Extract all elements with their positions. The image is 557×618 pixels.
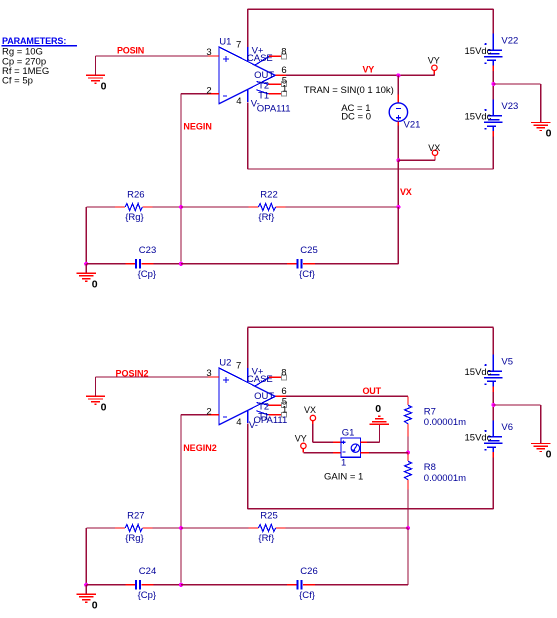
wire left vertical R27 to C24	[85, 528, 87, 585]
VCCS G1	[341, 438, 361, 457]
svg-text:OUT: OUT	[254, 391, 274, 402]
svg-text:3: 3	[206, 368, 211, 379]
svg-text:R27: R27	[127, 510, 144, 521]
op-amp U1 (OPA111)	[206, 37, 290, 115]
off-page connector VX	[432, 150, 437, 155]
wire NEGIN to C25	[181, 263, 287, 265]
svg-text:R7: R7	[424, 406, 436, 417]
resistor R25	[248, 527, 258, 529]
svg-text:R26: R26	[127, 189, 144, 200]
parameters underline	[2, 45, 78, 47]
wire ground stem (C23 row)	[85, 264, 87, 274]
svg-text:3: 3	[206, 47, 211, 58]
svg-text:R8: R8	[424, 462, 436, 473]
svg-text:VY: VY	[295, 434, 307, 444]
svg-text:8: 8	[281, 47, 286, 58]
off-page connector VX (G1)	[310, 415, 315, 420]
wire NEGIN to pin 2	[181, 93, 208, 95]
resistor R22	[248, 206, 258, 208]
svg-text:VX: VX	[428, 143, 440, 153]
wire left vertical R26 to C23	[85, 207, 87, 264]
wire bottom rail (bottom circuit)	[248, 508, 494, 510]
wire ground to C24	[86, 584, 125, 586]
svg-text:C26: C26	[300, 566, 317, 577]
battery V23	[484, 99, 502, 131]
G1 -out stub	[361, 452, 369, 454]
wire V21 to VX	[397, 126, 399, 161]
svg-text:OUT: OUT	[254, 70, 274, 81]
wire to G1 +in	[313, 441, 333, 443]
VX connector stub (G1)	[312, 421, 314, 425]
junction NEGIN2/R27/R25	[179, 526, 183, 530]
wire R27 to NEGIN2	[152, 527, 181, 529]
svg-text:V22: V22	[501, 35, 518, 46]
junction VY/V21	[396, 73, 400, 77]
wire POSIN2 vertical	[95, 377, 97, 396]
wire left to R27	[86, 527, 115, 529]
battery V6	[484, 420, 502, 452]
svg-text:{Cp}: {Cp}	[138, 269, 157, 280]
resistor R26	[115, 206, 125, 208]
wire VX connector drop	[434, 159, 436, 161]
wire OUT corner down to R7	[407, 396, 409, 405]
wire R26 to NEGIN	[152, 206, 181, 208]
wire ground drop (top right)	[540, 84, 542, 123]
svg-text:U2: U2	[219, 358, 231, 369]
svg-text:4: 4	[236, 96, 241, 107]
junction between V5/V6	[491, 403, 495, 407]
wire V- left vertical (bottom circuit)	[247, 424, 249, 509]
junction ground/C24	[84, 583, 88, 587]
junction NEGIN/R26/R22	[179, 205, 183, 209]
svg-text:2: 2	[206, 407, 211, 418]
svg-text:{Rf}: {Rf}	[258, 533, 274, 544]
svg-text:TRAN = SIN(0 1 10k): TRAN = SIN(0 1 10k)	[304, 85, 394, 96]
resistor R7	[405, 405, 412, 424]
wire C25 right	[315, 263, 399, 265]
svg-text:7: 7	[236, 361, 241, 372]
wire VX horizontal	[398, 159, 435, 161]
ground (C24 row)	[77, 594, 96, 602]
wire OUT to VY	[286, 74, 434, 76]
wire C25 row up to VX junction	[397, 207, 399, 264]
junction NEGIN/C23/C25	[179, 262, 183, 266]
capacitor C23	[126, 263, 136, 265]
svg-text:G1: G1	[342, 428, 355, 439]
svg-text:2: 2	[206, 86, 211, 97]
wire NEGIN to R22	[181, 206, 248, 208]
wire OUT	[286, 395, 408, 397]
svg-text:NEGIN: NEGIN	[183, 122, 212, 132]
wire top rail	[248, 8, 494, 10]
svg-text:Cf = 5p: Cf = 5p	[2, 75, 33, 86]
wire left to R26	[86, 206, 115, 208]
svg-text:U1: U1	[219, 37, 231, 48]
svg-text:1: 1	[282, 405, 287, 416]
svg-text:0.00001m: 0.00001m	[424, 473, 466, 484]
wire V22- to V23+	[492, 71, 494, 104]
svg-text:0: 0	[546, 128, 552, 140]
capacitor C24	[126, 584, 136, 586]
wire R25 to R8 junction	[286, 527, 408, 529]
wire bottom rail (top circuit)	[248, 168, 494, 170]
off-page connector VY	[432, 65, 437, 70]
svg-text:VY: VY	[428, 55, 440, 65]
svg-text:V5: V5	[501, 356, 513, 367]
svg-text:0: 0	[92, 278, 98, 290]
wire NEGIN2 vertical	[180, 415, 182, 585]
junction R8/feedback row	[406, 526, 410, 530]
svg-text:VX: VX	[304, 405, 316, 415]
ground (G1, flipped)	[370, 416, 389, 424]
R8 top stub	[407, 453, 409, 462]
svg-text:C24: C24	[139, 566, 156, 577]
svg-text:R25: R25	[260, 510, 277, 521]
wire to ground (bottom right)	[493, 404, 540, 406]
wire VX down to feedback row	[397, 160, 399, 207]
VX connector stub	[434, 156, 436, 159]
wire G1 -out to R7/R8 junction	[369, 452, 408, 454]
svg-text:CASE: CASE	[247, 374, 273, 385]
G1 +out stub	[361, 441, 368, 443]
svg-text:V21: V21	[404, 120, 421, 131]
svg-text:CASE: CASE	[247, 53, 273, 64]
wire V23- down	[492, 137, 494, 169]
svg-text:{Cf}: {Cf}	[299, 269, 315, 280]
svg-text:4: 4	[236, 417, 241, 428]
svg-text:PARAMETERS:: PARAMETERS:	[2, 36, 66, 46]
svg-text:{Rf}: {Rf}	[258, 212, 274, 223]
svg-text:C23: C23	[139, 245, 156, 256]
wire POSIN2 to pin 3	[96, 376, 208, 378]
junction ground/C23	[84, 262, 88, 266]
svg-text:V6: V6	[501, 422, 513, 433]
svg-text:{Cf}: {Cf}	[299, 590, 315, 601]
svg-text:{Rg}: {Rg}	[125, 212, 144, 223]
off-page connector VY (G1)	[301, 443, 306, 448]
wire POSIN to pin 3	[96, 55, 208, 57]
battery V5	[484, 355, 502, 387]
wire junction to V21	[397, 75, 399, 94]
svg-text:OPA111: OPA111	[257, 103, 291, 114]
svg-text:15Vdc: 15Vdc	[465, 433, 492, 444]
wire V+ left vertical (bottom circuit)	[247, 327, 249, 368]
svg-text:15Vdc: 15Vdc	[465, 112, 492, 123]
wire top rail (bottom circuit)	[248, 326, 494, 328]
source V21 (VSIN)	[389, 94, 407, 125]
VY connector stub (G1)	[302, 449, 304, 453]
svg-text:0: 0	[92, 599, 98, 611]
wire V5- to V6+	[492, 392, 494, 425]
svg-text:0.00001m: 0.00001m	[424, 417, 466, 428]
resistor R27	[115, 527, 125, 529]
wire NEGIN2 to pin 2	[181, 414, 208, 416]
junction between V22/V23	[491, 82, 495, 86]
svg-text:R22: R22	[260, 189, 277, 200]
capacitor C25	[287, 263, 297, 265]
junction R7/R8/G1	[406, 451, 410, 455]
svg-text:C25: C25	[300, 245, 317, 256]
wire to ground (top right)	[493, 83, 540, 85]
ground (C23 row)	[77, 273, 96, 281]
svg-text:7: 7	[236, 40, 241, 51]
capacitor C26	[287, 584, 297, 586]
svg-text:POSIN2: POSIN2	[116, 369, 149, 379]
svg-text:V23: V23	[501, 101, 518, 112]
ground (POSIN2)	[86, 396, 105, 404]
svg-text:0: 0	[101, 401, 107, 413]
resistor R8	[405, 461, 412, 480]
wire V+ left vertical (top)	[247, 9, 249, 47]
wire G1 +out	[367, 441, 379, 443]
wire C26 right	[315, 584, 408, 586]
svg-text:POSIN: POSIN	[117, 46, 144, 56]
ground (POSIN)	[86, 75, 105, 83]
wire NEGIN2 to R25	[181, 527, 248, 529]
wire C23 to NEGIN	[153, 263, 181, 265]
R8 bottom stub	[407, 480, 409, 490]
VY connector stub	[433, 71, 435, 74]
svg-text:VY: VY	[363, 64, 375, 74]
svg-text:{Rg}: {Rg}	[125, 533, 144, 544]
svg-text:0: 0	[101, 80, 107, 92]
wire C24 to NEGIN2	[153, 584, 181, 586]
wire R22 to VX	[286, 206, 399, 208]
R7 bottom stub	[407, 424, 409, 437]
wire ground stem (C24 row)	[85, 585, 87, 594]
svg-text:{Cp}: {Cp}	[138, 590, 157, 601]
wire VY connector drop	[433, 74, 435, 76]
junction VX/R22	[396, 205, 400, 209]
wire to V22 top	[492, 9, 494, 34]
svg-text:15Vdc: 15Vdc	[465, 46, 492, 57]
wire VX to G1 +in	[312, 424, 314, 442]
G1 +in stub	[333, 441, 341, 443]
op-amp U2 (OPA111)	[206, 358, 287, 432]
svg-text:OPA111: OPA111	[254, 415, 288, 426]
ground (bottom right)	[531, 444, 550, 452]
svg-text:0: 0	[546, 449, 552, 461]
G1 -in stub	[333, 452, 341, 454]
battery V22	[484, 34, 502, 66]
svg-text:8: 8	[281, 368, 286, 379]
wire ground drop (bottom right)	[540, 405, 542, 444]
wire R8 down across bottom rail	[407, 490, 409, 528]
wire to V5 top	[492, 327, 494, 354]
svg-text:0: 0	[375, 403, 381, 415]
wire VY to G1 -in	[303, 452, 333, 454]
wire POSIN vertical	[95, 56, 97, 75]
wire ground to C23	[86, 263, 125, 265]
wire C26 row up to R8 junction	[407, 528, 409, 585]
junction NEGIN2/C24/C26	[179, 583, 183, 587]
wire G1 +out up to ground	[379, 424, 381, 442]
svg-text:OUT: OUT	[363, 386, 382, 396]
ground (top right)	[531, 123, 550, 131]
wire V6- down	[492, 458, 494, 509]
svg-text:15Vdc: 15Vdc	[465, 367, 492, 378]
wire R7 to junction	[407, 436, 409, 452]
svg-text:DC = 0: DC = 0	[341, 112, 371, 123]
svg-text:GAIN = 1: GAIN = 1	[324, 472, 363, 483]
junction VX	[396, 158, 400, 162]
svg-text:VX: VX	[400, 187, 412, 197]
wire NEGIN2 to C26	[181, 584, 287, 586]
svg-text:1: 1	[282, 84, 287, 95]
svg-text:NEGIN2: NEGIN2	[183, 443, 217, 453]
wire NEGIN vertical	[180, 94, 182, 264]
svg-text:1: 1	[341, 457, 346, 468]
wire V- left vertical (top circuit)	[247, 103, 249, 169]
